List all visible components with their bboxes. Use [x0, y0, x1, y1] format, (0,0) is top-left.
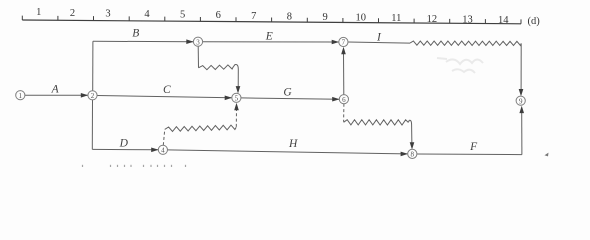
wire activity C (2-5): [97, 96, 231, 98]
arrowhead G into node 6: [332, 97, 339, 102]
free-float wave 3 to 5: [199, 65, 234, 70]
svg-text:4: 4: [144, 9, 150, 20]
svg-text:11: 11: [391, 13, 401, 24]
arrowhead up into node 5 bottom: [234, 103, 239, 110]
svg-text:F: F: [469, 141, 478, 153]
svg-text:10: 10: [355, 13, 366, 24]
hook and drop into node 5 top: [233, 64, 238, 90]
node 9: [516, 96, 525, 105]
arrowhead up into node 9 bottom: [519, 106, 524, 113]
hook and drop into node 8 top: [408, 120, 412, 145]
svg-text:(d): (d): [528, 16, 541, 27]
wire drop from wave end down to node 9: [520, 43, 522, 89]
faint bleed-through ghost marks: [437, 58, 483, 73]
arrowhead E into node 7: [332, 40, 339, 45]
svg-text:A: A: [51, 84, 60, 96]
arrowhead down into node 8: [410, 142, 415, 149]
clipped caption fragment at bottom: [83, 165, 186, 167]
wire activity D (2-4): [92, 148, 158, 150]
svg-text:5: 5: [180, 10, 185, 21]
wire float riser below node 3: [197, 46, 199, 68]
arrowhead A into node 2: [81, 93, 88, 98]
node 7: [339, 37, 348, 46]
svg-text:8: 8: [287, 11, 292, 22]
dashed riser above node 4: [163, 130, 164, 145]
wire activity I (7-): [348, 42, 410, 43]
node 4: [158, 145, 167, 154]
arrowhead B into node 3: [186, 39, 193, 44]
node 6: [339, 95, 348, 104]
free-float wave 4 to 5: [165, 125, 237, 131]
free-float wave 6 to 8: [344, 120, 409, 125]
arrowhead down into node 9 top: [519, 89, 524, 96]
svg-text:4: 4: [161, 146, 165, 154]
svg-text:3: 3: [196, 38, 200, 46]
svg-text:9: 9: [322, 12, 327, 23]
svg-text:8: 8: [411, 151, 415, 159]
arrowhead H into node 8: [401, 152, 408, 157]
wire riser node2 up to B level: [92, 41, 94, 90]
svg-text:13: 13: [462, 14, 473, 25]
wire riser node2 down to D level: [91, 100, 93, 149]
svg-text:7: 7: [342, 39, 346, 47]
svg-text:B: B: [132, 28, 139, 40]
svg-text:2: 2: [91, 92, 95, 100]
stray mark right margin: [545, 153, 549, 157]
wire activity G (5-6): [241, 98, 339, 99]
svg-text:14: 14: [498, 15, 509, 26]
dummy wire node 6 up to node 7: [343, 53, 345, 95]
svg-text:E: E: [265, 31, 273, 43]
wire activity A (1-2): [25, 94, 88, 96]
wire rise from F corner up to node 9: [521, 112, 523, 155]
free-float wave I to day 14: [410, 41, 521, 46]
svg-text:5: 5: [235, 94, 239, 102]
wire activity E (3-7): [203, 41, 339, 43]
svg-text:1: 1: [36, 7, 41, 18]
svg-text:1: 1: [19, 92, 23, 100]
ruler ticks: [22, 16, 521, 24]
svg-text:2: 2: [70, 8, 75, 19]
svg-text:D: D: [119, 138, 129, 150]
svg-text:G: G: [283, 86, 292, 98]
node 3: [193, 37, 202, 46]
node 8: [408, 149, 417, 158]
svg-text:C: C: [163, 84, 171, 96]
svg-text:H: H: [288, 138, 298, 150]
arrowhead C into node 5: [225, 96, 232, 101]
node 5: [232, 93, 241, 102]
svg-text:9: 9: [519, 97, 523, 105]
wire activity B (2-3): [93, 40, 193, 42]
svg-text:6: 6: [216, 10, 221, 21]
ruler numbers 1-14: [36, 7, 509, 26]
wire activity H (4-8): [168, 150, 408, 154]
dashed drop below node 6: [343, 104, 345, 122]
ruler baseline: [22, 20, 521, 24]
svg-text:6: 6: [342, 96, 346, 104]
svg-text:12: 12: [427, 14, 438, 25]
arrowhead down into node 5: [236, 86, 241, 93]
arrowhead D into node 4: [151, 148, 158, 153]
dashed riser up to node 5 bottom: [235, 109, 237, 127]
svg-text:7: 7: [251, 11, 256, 22]
node 1: [16, 91, 25, 100]
svg-text:3: 3: [105, 8, 110, 19]
wire activity F (8-9): [417, 153, 522, 156]
arrowhead up into node 7: [341, 47, 346, 54]
node 2: [88, 91, 97, 100]
